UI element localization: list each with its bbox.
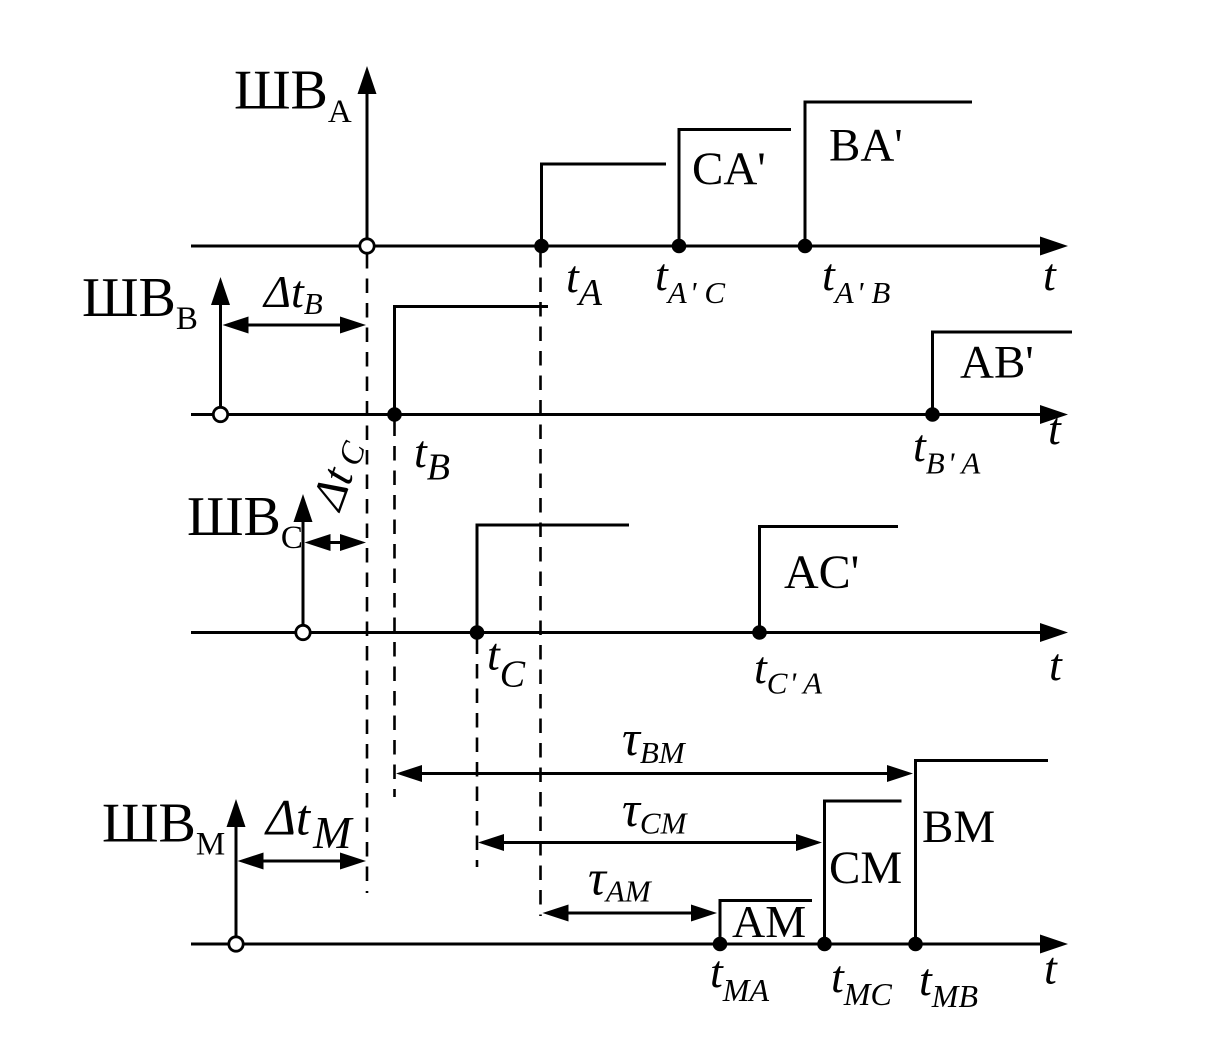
axis vertical ШВ_C bbox=[294, 494, 313, 633]
svg-text:t: t bbox=[1049, 639, 1063, 690]
arrow Δt_M bbox=[238, 853, 367, 870]
arrow Δt_C bbox=[305, 534, 367, 551]
pulse AC' bbox=[760, 527, 899, 633]
pulse BM bbox=[916, 761, 1049, 945]
node t_MB bbox=[908, 937, 923, 952]
axis t of ШВ_A bbox=[191, 237, 1068, 256]
arrow τ_CM bbox=[478, 834, 822, 851]
node t_C bbox=[470, 625, 485, 640]
node t_A'C bbox=[672, 239, 687, 254]
arrow τ_BM bbox=[396, 765, 913, 782]
pulse BA' bbox=[805, 102, 972, 246]
svg-text:CM: CM bbox=[829, 842, 902, 894]
svg-text:CA': CA' bbox=[692, 143, 766, 195]
dashed guide x=540.5 (from t_A) bbox=[539, 253, 542, 916]
svg-text:t: t bbox=[1048, 403, 1062, 454]
dashed guide x=367 (from origin A) bbox=[366, 254, 369, 893]
origin circle M bbox=[229, 937, 243, 951]
pulse CA' bbox=[679, 130, 791, 247]
svg-text:t: t bbox=[1043, 249, 1057, 300]
node t_MC bbox=[817, 937, 832, 952]
svg-text:AM: AM bbox=[732, 896, 806, 947]
node t_MA bbox=[713, 937, 728, 952]
pulse step at t_A bbox=[542, 164, 667, 246]
axis t of ШВ_C bbox=[191, 623, 1068, 642]
axis vertical ШВ_B bbox=[211, 277, 230, 415]
axis t of ШВ_M bbox=[191, 935, 1068, 954]
arrow Δt_B bbox=[223, 317, 367, 334]
svg-text:t: t bbox=[1044, 943, 1058, 994]
pulse step at t_C bbox=[477, 525, 629, 633]
node t_A bbox=[534, 239, 549, 254]
pulse AB' bbox=[933, 332, 1073, 415]
svg-text:BM: BM bbox=[922, 801, 995, 853]
origin circle A bbox=[360, 239, 374, 253]
axis vertical ШВ_M bbox=[227, 799, 246, 944]
axis vertical ШВ_A bbox=[358, 66, 377, 246]
arrow τ_AM bbox=[543, 905, 718, 922]
axis t of ШВ_B bbox=[191, 405, 1068, 424]
svg-text:BA': BA' bbox=[829, 120, 903, 172]
svg-text:AB': AB' bbox=[960, 337, 1034, 389]
node t_B'A bbox=[925, 407, 940, 422]
svg-text:AC': AC' bbox=[784, 546, 859, 599]
origin circle B bbox=[213, 407, 227, 421]
pulse AM bbox=[720, 901, 812, 945]
origin circle C bbox=[296, 625, 310, 639]
dashed guide x=394.5 (from t_B) bbox=[393, 422, 396, 798]
pulse CM bbox=[825, 801, 902, 944]
node t_A'B bbox=[798, 239, 813, 254]
node t_C'A bbox=[752, 625, 767, 640]
node t_B bbox=[387, 407, 402, 422]
dashed guide x=477 (from t_C) bbox=[476, 640, 479, 868]
pulse step at t_B bbox=[395, 307, 549, 415]
